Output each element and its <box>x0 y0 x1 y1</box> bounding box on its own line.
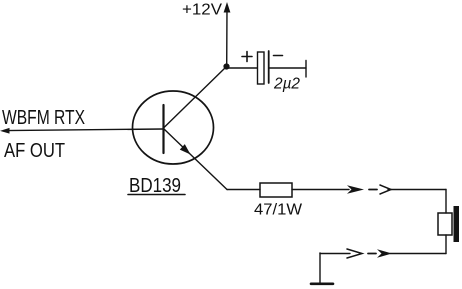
wire: resistor to break (top) <box>292 189 349 191</box>
wire: base input <box>6 129 163 131</box>
top wire open arrow <box>380 185 391 194</box>
resistor R1 box <box>260 183 292 197</box>
capacitor C1 left plate (outlined) <box>258 52 265 84</box>
top wire filled arrow <box>347 185 364 194</box>
svg-text:2µ2: 2µ2 <box>273 76 300 93</box>
capacitor C1 right plate <box>268 51 270 83</box>
output terminal tick <box>305 61 307 78</box>
svg-text:47/1W: 47/1W <box>254 202 303 219</box>
svg-text:AF OUT: AF OUT <box>4 139 65 162</box>
transistor Q1 BD139 body circle <box>133 91 214 164</box>
speaker LS1 magnet bar <box>454 206 460 242</box>
speaker LS1 box <box>438 213 452 235</box>
bottom wire open arrow <box>347 249 362 258</box>
emitter arrowhead <box>180 144 191 154</box>
bottom wire filled arrow <box>377 249 392 258</box>
BD139 underline <box>128 194 185 196</box>
wire: bottom return right segment <box>390 253 446 255</box>
ground symbol bar <box>311 282 333 285</box>
transistor emitter lead (diagonal to elbow) <box>164 129 228 190</box>
wire: speaker bottom down <box>445 235 447 254</box>
wire: emitter elbow to resistor <box>227 189 260 191</box>
wire: +12V rail vertical <box>226 8 228 66</box>
wire: break to top-right corner <box>388 189 446 191</box>
svg-text:WBFM RTX: WBFM RTX <box>2 107 85 129</box>
+12V supply arrowhead <box>224 2 231 13</box>
wire: ground vertical <box>319 253 321 283</box>
wire: junction to capacitor <box>227 67 257 69</box>
wire: corner down to speaker <box>445 190 447 214</box>
svg-text:+12V: +12V <box>182 2 222 19</box>
wire: ground corner to break <box>320 253 350 255</box>
bottom wire break dash <box>368 253 376 255</box>
base input arrowhead (pointing left) <box>0 128 10 134</box>
transistor collector lead <box>164 67 227 129</box>
top wire break dash <box>369 189 377 191</box>
node: collector junction dot <box>223 63 229 69</box>
capacitor polarity minus <box>274 55 283 57</box>
transistor base bar <box>162 105 164 153</box>
capacitor polarity plus <box>242 52 252 62</box>
wire: capacitor to output terminal <box>269 67 306 69</box>
